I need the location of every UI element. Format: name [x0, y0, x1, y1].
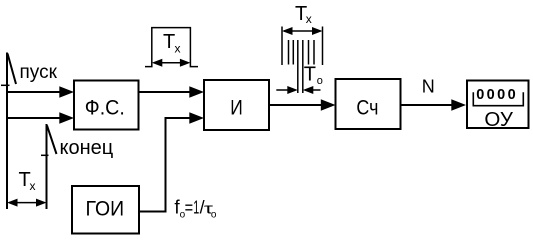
- svg-text:о: о: [317, 75, 323, 87]
- svg-text:T: T: [304, 63, 316, 85]
- svg-text:х: х: [30, 179, 36, 193]
- svg-text:0000: 0000: [476, 87, 518, 103]
- svg-text:1: 1: [193, 198, 199, 218]
- svg-text:И: И: [230, 96, 243, 119]
- svg-text:пуск: пуск: [20, 62, 58, 83]
- svg-text:=: =: [185, 198, 194, 218]
- svg-text:T: T: [163, 31, 175, 53]
- svg-text:конец: конец: [60, 137, 114, 159]
- svg-text:N: N: [422, 76, 435, 96]
- svg-text:х: х: [306, 12, 312, 26]
- svg-text:ГОИ: ГОИ: [86, 197, 125, 220]
- svg-text:ОУ: ОУ: [484, 108, 513, 131]
- svg-text:о: о: [211, 210, 217, 221]
- svg-text:Ф.С.: Ф.С.: [85, 96, 125, 119]
- svg-text:Сч: Сч: [356, 96, 378, 119]
- svg-text:х: х: [175, 42, 181, 56]
